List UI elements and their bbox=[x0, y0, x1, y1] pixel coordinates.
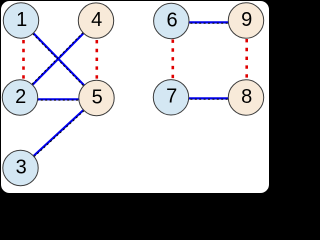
edge 4-5 (red dotted) bbox=[96, 40, 99, 80]
node 5 bbox=[79, 80, 114, 115]
edge 4-2 (blue with black dash) bbox=[19, 20, 96, 98]
edge 9-8 (red dotted) bbox=[245, 39, 248, 80]
white rounded panel bbox=[1, 1, 270, 194]
node 7 bbox=[153, 80, 188, 115]
svg-text:7: 7 bbox=[166, 86, 177, 108]
svg-text:6: 6 bbox=[166, 9, 177, 31]
edge 1-5 (blue with black dash) bbox=[20, 21, 96, 99]
edge 1-2 (red dotted) bbox=[22, 40, 25, 80]
node 8 bbox=[228, 80, 263, 115]
edge 3-5 (blue with black dash) bbox=[21, 98, 98, 169]
node 3 bbox=[3, 150, 38, 185]
svg-text:8: 8 bbox=[241, 86, 252, 108]
node 2 bbox=[2, 80, 37, 115]
svg-text:1: 1 bbox=[16, 9, 27, 31]
svg-text:5: 5 bbox=[92, 86, 103, 108]
node 4 bbox=[78, 3, 113, 38]
svg-text:3: 3 bbox=[16, 156, 27, 178]
svg-text:9: 9 bbox=[241, 9, 252, 31]
edge 7-8 (blue with black dash) bbox=[186, 97, 231, 100]
edge 2-5 (blue with black dash) bbox=[32, 98, 84, 101]
node 6 bbox=[154, 3, 189, 38]
svg-text:2: 2 bbox=[15, 86, 26, 108]
svg-text:4: 4 bbox=[91, 9, 102, 31]
edge 6-7 (red dotted) bbox=[172, 40, 175, 80]
node 1 bbox=[3, 3, 38, 38]
edge 6-9 (blue with black dash) bbox=[186, 21, 231, 24]
node 9 bbox=[228, 3, 263, 38]
